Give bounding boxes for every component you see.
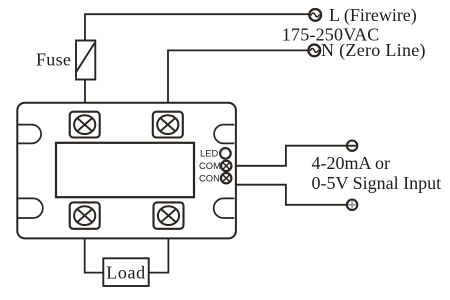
svg-text:L (Firewire): L (Firewire)	[329, 5, 417, 26]
svg-text:Load: Load	[106, 262, 145, 282]
svg-text:0-5V Signal Input: 0-5V Signal Input	[312, 173, 442, 193]
svg-text:CON: CON	[199, 172, 220, 183]
svg-text:N (Zero Line): N (Zero Line)	[321, 40, 426, 61]
svg-text:Fuse: Fuse	[36, 50, 71, 70]
svg-text:4-20mA or: 4-20mA or	[312, 153, 391, 173]
svg-text:LED: LED	[200, 148, 218, 159]
svg-text:COM: COM	[199, 160, 221, 171]
